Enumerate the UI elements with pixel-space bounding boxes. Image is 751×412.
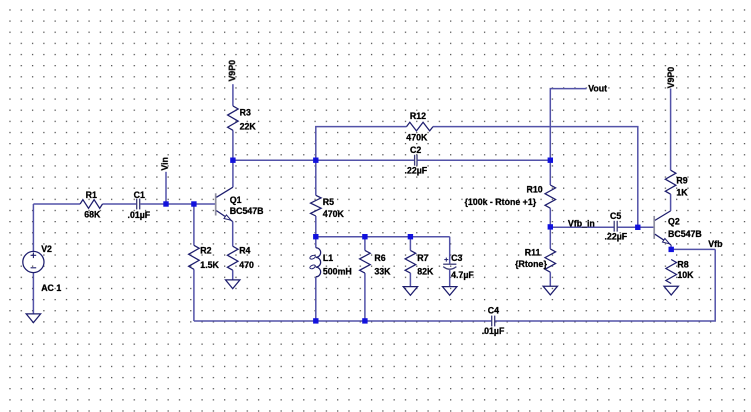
svg-text:BC547B: BC547B [668, 229, 702, 239]
svg-text:Vfb_in: Vfb_in [568, 218, 595, 228]
svg-text:R7: R7 [417, 253, 428, 263]
wire V2 to R1 [33, 203, 80, 205]
wire C3 to ground [449, 270, 451, 287]
svg-text:.01µF: .01µF [128, 210, 151, 220]
svg-text:470K: 470K [323, 209, 345, 219]
wire R6 bottom [364, 273, 366, 321]
wire C2 right to node B [418, 159, 551, 161]
svg-text:V9P0: V9P0 [227, 60, 237, 82]
wire L1 top [315, 237, 317, 248]
resistor R7 [405, 250, 416, 273]
wire V9P0 to R9 [670, 89, 672, 171]
wire C5 to Q2 base [617, 226, 654, 228]
svg-text:33K: 33K [374, 267, 391, 277]
wire Q2 emitter node to Vfb corner [671, 248, 715, 250]
wire R12 branch right [433, 127, 638, 228]
wire node to Q1 collector [232, 160, 234, 187]
resistor R11 [545, 249, 556, 272]
capacitor C3 polarized [443, 258, 456, 270]
svg-text:1K: 1K [676, 187, 688, 197]
svg-text:C1: C1 [134, 190, 145, 200]
wire R1 to C1 [103, 203, 137, 205]
svg-text:R5: R5 [323, 197, 334, 207]
transistor Q2 [654, 211, 671, 250]
svg-text:470: 470 [239, 260, 254, 270]
wire Q1 emitter to R4 [232, 222, 234, 247]
svg-text:R10: R10 [527, 184, 543, 194]
svg-text:C5: C5 [610, 211, 621, 221]
junction node A [313, 158, 318, 163]
resistor R1 [80, 200, 102, 209]
wire R10 to Vfb_in node [549, 208, 551, 227]
svg-text:C4: C4 [488, 306, 499, 316]
svg-text:1.5K: 1.5K [200, 260, 219, 270]
wire Vin stub [165, 172, 167, 204]
resistor R12 [407, 122, 434, 131]
svg-text:4.7µF: 4.7µF [451, 270, 474, 280]
capacitor C5 [613, 221, 615, 232]
svg-text:R3: R3 [240, 107, 251, 117]
svg-text:68K: 68K [84, 210, 101, 220]
ground R11 [543, 286, 557, 295]
wire R7 to ground [409, 273, 411, 287]
transistor Q1 [216, 187, 233, 221]
junction Vfb_in node [548, 224, 553, 229]
wire bottom right to Vfb [495, 249, 715, 321]
junction Vin [163, 201, 168, 206]
junction R6 top [362, 234, 367, 239]
svg-text:Q1: Q1 [230, 195, 242, 205]
wire L1 bottom [315, 277, 317, 321]
wire mid row [316, 236, 450, 238]
wire V2 bottom [32, 273, 34, 314]
wire R6 top [364, 237, 366, 251]
wire R11 to ground [549, 272, 551, 286]
junction R6 bottom [362, 318, 367, 323]
ground V2 [26, 314, 40, 323]
svg-text:Vin: Vin [160, 157, 170, 171]
svg-text:Vout: Vout [588, 83, 607, 93]
svg-text:10K: 10K [677, 270, 694, 280]
resistor R6 [360, 250, 371, 273]
wire V9P0 to R3 [232, 84, 234, 106]
junction L1 bottom [313, 318, 318, 323]
resistor R5 [310, 195, 321, 216]
svg-text:R8: R8 [677, 260, 688, 270]
wire R12 branch left [316, 127, 407, 161]
junction node B Vout [548, 158, 553, 163]
svg-text:BC547B: BC547B [230, 206, 264, 216]
wire R9 to Q2 collector [670, 194, 672, 211]
wire R2 bottom [193, 269, 195, 321]
resistor R3 [228, 106, 239, 130]
svg-text:500mH: 500mH [323, 267, 352, 277]
resistor R8 [666, 260, 677, 284]
svg-text:{Rtone}: {Rtone} [515, 259, 547, 269]
svg-text:R9: R9 [676, 175, 687, 185]
wire Vfb_in node to R11 [549, 227, 551, 249]
svg-text:V2: V2 [41, 244, 52, 254]
svg-text:R6: R6 [374, 253, 385, 263]
capacitor C4 [491, 316, 493, 327]
svg-text:R2: R2 [200, 246, 211, 256]
svg-text:C3: C3 [451, 253, 462, 263]
junction Q2 emitter node [669, 247, 674, 252]
svg-text:.22µF: .22µF [605, 232, 628, 242]
svg-text:C2: C2 [410, 145, 421, 155]
resistor R10 [545, 185, 556, 208]
wire R5 top [315, 160, 317, 195]
svg-text:R1: R1 [86, 190, 97, 200]
wire Vfb_in to C5 [550, 226, 614, 228]
resistor R2 [189, 245, 200, 269]
svg-text:.22µF: .22µF [405, 166, 428, 176]
svg-text:{100k - Rtone +1}: {100k - Rtone +1} [465, 197, 537, 207]
svg-text:R12: R12 [410, 111, 426, 121]
wire node A to C2 left [233, 159, 414, 161]
inductor L1 [309, 248, 320, 277]
svg-text:22K: 22K [240, 121, 257, 131]
ground R7 [403, 287, 417, 296]
svg-text:R4: R4 [239, 246, 250, 256]
capacitor C1 [136, 199, 138, 210]
svg-text:.01µF: .01µF [482, 326, 505, 336]
capacitor C2 [414, 155, 416, 166]
junction R3-collector node [230, 158, 235, 163]
wire R5 to L1 node [315, 216, 317, 237]
resistor R9 [665, 170, 676, 194]
wire R3 to node [232, 130, 234, 160]
svg-text:AC 1: AC 1 [41, 283, 61, 293]
svg-text:Vfb: Vfb [708, 239, 723, 249]
wire R7 top [409, 237, 411, 251]
ground C3 [443, 287, 457, 296]
wire R4 to ground [232, 270, 234, 280]
wire node B to R10 [549, 160, 551, 185]
junction R7 top [408, 234, 413, 239]
resistor R4 [227, 246, 238, 270]
ground R8 [664, 286, 678, 295]
wire V2 top [32, 204, 34, 251]
wire R2 top [193, 204, 195, 245]
junction R5-L1 [313, 234, 318, 239]
voltage source V2 [23, 251, 44, 272]
wire C3 top [449, 237, 451, 264]
svg-text:R11: R11 [525, 247, 541, 257]
wire bottom left [194, 320, 492, 322]
svg-text:82K: 82K [417, 267, 434, 277]
svg-text:V9P0: V9P0 [666, 67, 676, 89]
junction R12-C5 node [635, 225, 640, 230]
svg-text:L1: L1 [323, 253, 333, 263]
svg-text:Q2: Q2 [668, 216, 680, 226]
wire C1 to Q1 base [140, 203, 215, 205]
svg-text:470K: 470K [406, 133, 428, 143]
junction R2 top [191, 201, 196, 206]
ground R4 [226, 280, 240, 289]
wire Vout stub [550, 89, 586, 161]
